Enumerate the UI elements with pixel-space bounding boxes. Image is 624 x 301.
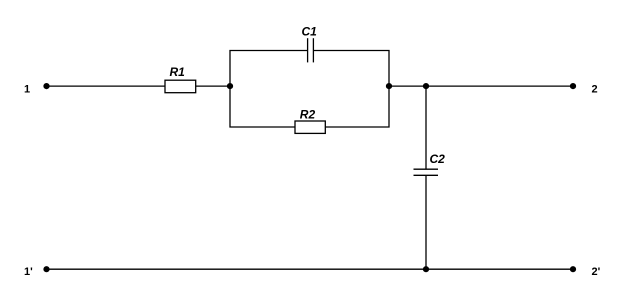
svg-text:1: 1	[24, 83, 30, 95]
svg-text:C2: C2	[430, 152, 446, 166]
svg-text:1': 1'	[24, 266, 33, 278]
svg-text:R1: R1	[170, 65, 186, 79]
svg-text:2: 2	[592, 83, 598, 95]
svg-text:C1: C1	[302, 25, 318, 39]
svg-text:R2: R2	[300, 107, 316, 121]
svg-text:2': 2'	[592, 266, 601, 278]
